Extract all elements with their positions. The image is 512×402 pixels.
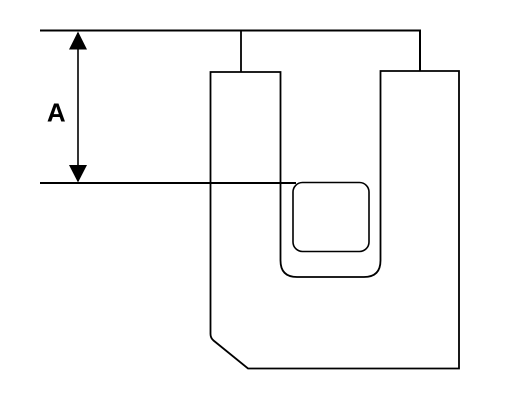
left prong tab line	[240, 31, 242, 73]
inner rounded square window	[293, 183, 369, 252]
arrowhead up	[69, 32, 87, 50]
arrowhead down	[69, 165, 87, 183]
part outline (clamp body with U-slot)	[211, 71, 460, 369]
top reference line	[40, 31, 420, 72]
bottom reference line	[40, 182, 296, 184]
dimension line A (vertical)	[77, 33, 79, 181]
svg-text:A: A	[47, 98, 66, 128]
